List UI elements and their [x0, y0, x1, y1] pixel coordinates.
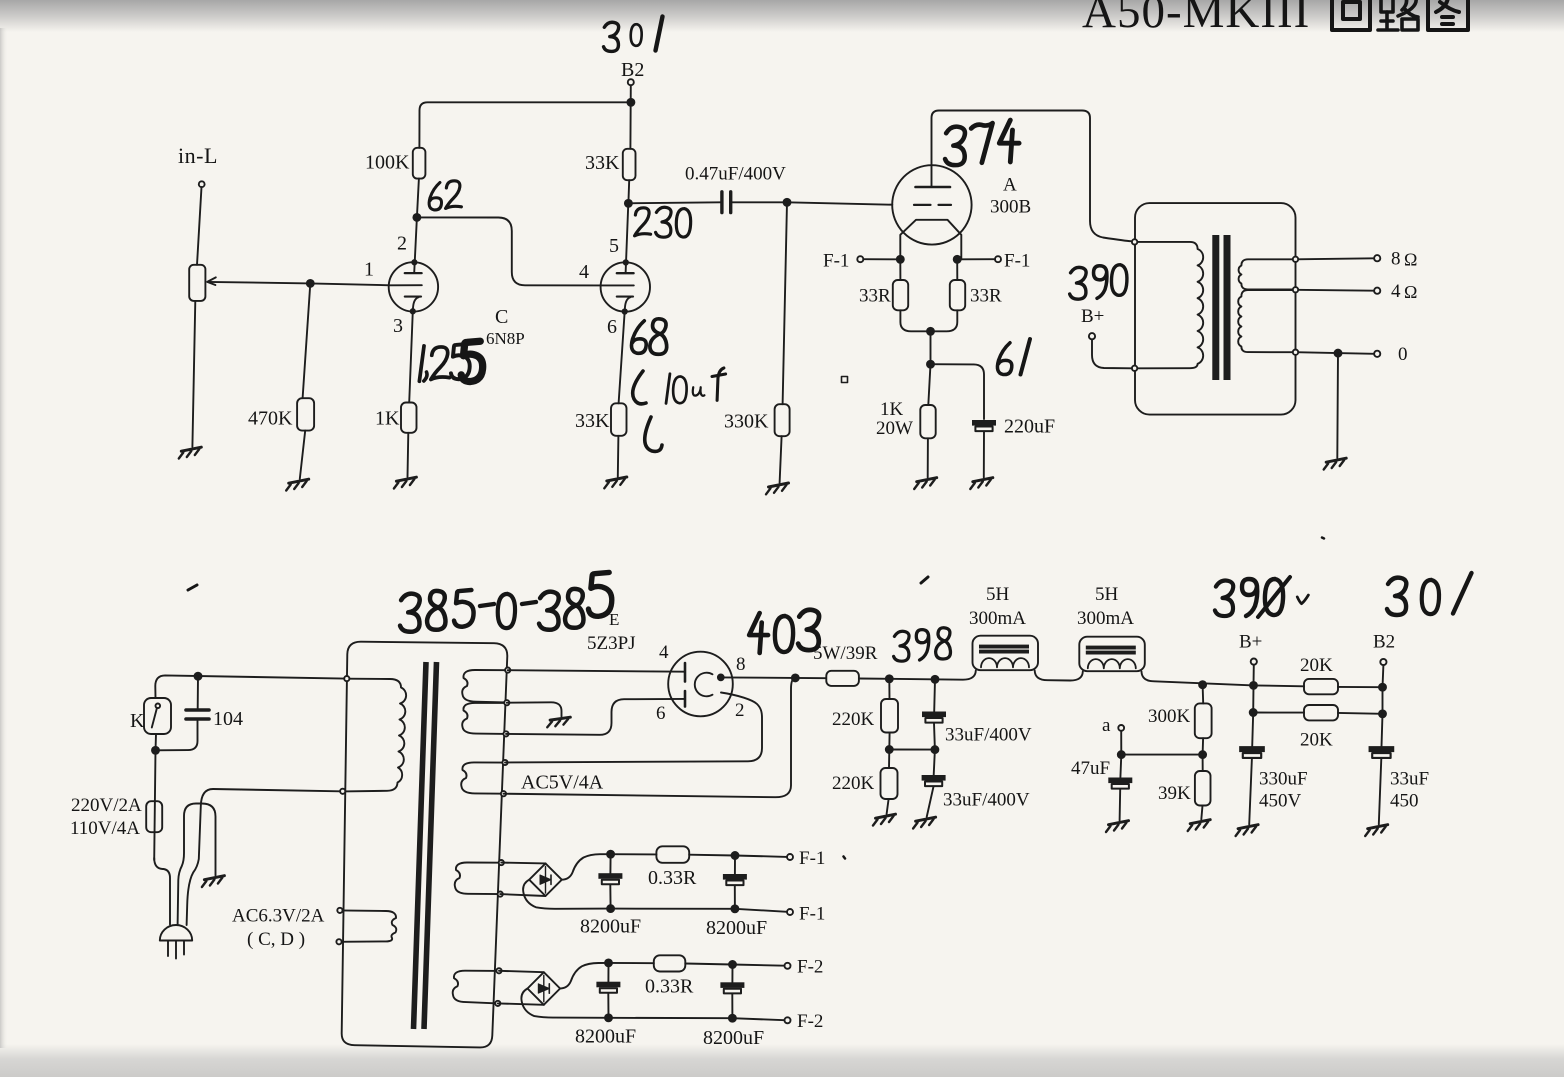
ground 220uF [970, 478, 993, 489]
svg-text:20W: 20W [876, 418, 913, 439]
PT node 6.3V bottom [336, 939, 341, 944]
junction F2 bottom cap2 [729, 1015, 736, 1022]
wire cap c leads [607, 963, 609, 1018]
terminal B2 [1380, 659, 1386, 665]
mains plug [160, 925, 192, 941]
OPT secondary loop B [1238, 290, 1295, 352]
svg-text:5Z3PJ: 5Z3PJ [587, 633, 636, 654]
node 4ohm on box [1293, 287, 1298, 292]
junction live node [152, 747, 159, 754]
wire pin8 to rail [721, 676, 826, 679]
svg-text:K: K [130, 710, 145, 732]
wire 33uF node to lower cap [934, 750, 935, 775]
resistor 33R right [950, 280, 965, 310]
wire node to a branch [1121, 754, 1202, 756]
5Z3PJ plate pin4 bar [684, 663, 687, 682]
wire pin2 to 5V top tap [505, 693, 762, 763]
ground 39K [1188, 820, 1211, 831]
wire rail to 220K upper [888, 679, 890, 699]
capacitor 8200uF d [720, 982, 744, 993]
svg-text:F-1: F-1 [799, 904, 825, 925]
handwritten 390v [1215, 577, 1309, 617]
capacitor 8200uF c [596, 982, 620, 993]
wire B+ lower to 20K lower [1253, 712, 1304, 714]
terminal F-1 minus [787, 909, 793, 915]
PT HV winding loop1 [462, 670, 508, 703]
choke L2 5H 300mA [1079, 637, 1145, 672]
svg-text:C: C [495, 306, 508, 328]
wire a node to 47uF [1119, 755, 1122, 778]
5Z3PJ filament arc [695, 673, 713, 697]
junction cathode node K [927, 328, 934, 335]
wire to F-2 minus terminal [732, 1018, 784, 1020]
PT HV winding loop2 [462, 703, 507, 734]
PT node primary bottom [340, 789, 345, 794]
wire node P1 to V2 grid [417, 217, 601, 285]
wire pot bottom to ground [192, 301, 195, 447]
wire F-1 right [961, 258, 995, 260]
PT node HV top [505, 668, 510, 673]
title CJK lu [1378, 0, 1418, 30]
svg-text:220V/2A: 220V/2A [71, 795, 142, 816]
wire B+ node to 20K upper [1254, 684, 1305, 687]
junction F1 rail cap1 [607, 851, 614, 858]
svg-text:5H: 5H [1095, 584, 1119, 605]
wire 0.33R f2 to cap2 [685, 964, 732, 965]
handwritten 403 [749, 610, 819, 653]
svg-text:104: 104 [213, 708, 243, 730]
handwritten 370 at B+ [1070, 265, 1127, 299]
PT node primary top [344, 676, 349, 681]
svg-text:E: E [609, 610, 619, 629]
junction rail 33uF [932, 676, 939, 683]
wire tap 8ohm [1296, 258, 1375, 259]
stray pen tick left [188, 585, 197, 590]
stray dot right of F-1 [844, 857, 846, 859]
junction F1 bottom cap2 [731, 905, 738, 912]
wire HV mid to ground [507, 702, 562, 716]
ground 1K [394, 477, 417, 488]
dot V2 bottom crossing [623, 309, 627, 313]
terminal a [1118, 725, 1124, 731]
svg-text:33K: 33K [585, 152, 620, 174]
terminal 8ohm [1374, 255, 1380, 261]
svg-text:3: 3 [393, 315, 403, 337]
svg-text:AC5V/4A: AC5V/4A [521, 772, 604, 794]
wire wiper to V1 grid (node G1) [208, 282, 422, 285]
ground 33uF [913, 817, 936, 828]
power transformer PT outline [342, 642, 508, 1048]
svg-text:1K: 1K [375, 408, 400, 430]
wire K to live node [155, 734, 158, 750]
PT primary 220V winding [343, 679, 406, 792]
svg-text:300B: 300B [990, 197, 1031, 218]
wire bridge1 minus to bottom rail [523, 880, 611, 909]
svg-text:8: 8 [736, 654, 746, 675]
wire F2 bottom rail [609, 1017, 733, 1019]
OPT secondary loop A [1239, 259, 1296, 289]
svg-text:110V/4A: 110V/4A [70, 818, 140, 839]
svg-text:220K: 220K [832, 709, 875, 730]
wire live node to fuse [154, 750, 155, 860]
resistor 220K lower [881, 768, 898, 799]
handwritten 398 [894, 628, 951, 661]
svg-text:in-L: in-L [178, 143, 218, 168]
ground 33uF 450 [1365, 825, 1388, 836]
capacitor 8200uF b [723, 874, 747, 885]
svg-text:B2: B2 [1373, 632, 1395, 653]
PT node HV mid [504, 700, 509, 705]
resistor 20K upper [1304, 679, 1338, 694]
terminal B2 top [628, 79, 634, 85]
svg-text:33K: 33K [575, 410, 610, 432]
svg-text:6N8P: 6N8P [486, 329, 525, 348]
wire a terminal down [1120, 731, 1122, 755]
handwritten 1.25 [419, 344, 469, 381]
svg-text:330K: 330K [724, 411, 769, 433]
svg-text:( C, D ): ( C, D ) [247, 929, 305, 950]
wire B+ node down [1252, 685, 1254, 712]
svg-text:330uF: 330uF [1259, 769, 1308, 790]
wire 5V bottom tap to rail junction [504, 678, 796, 797]
svg-text:220K: 220K [832, 773, 875, 794]
wire rail to 0.33R f1 [611, 853, 657, 855]
PT node fil2 bottom [495, 1001, 500, 1006]
junction filament right [954, 256, 961, 263]
svg-text:100K: 100K [365, 152, 410, 174]
stray speck [1322, 538, 1324, 539]
junction B2 lower [1379, 710, 1386, 717]
capacitor 330uF/450V [1239, 746, 1265, 758]
capacitor 220uF [972, 420, 996, 431]
wire node to 39K [1202, 755, 1204, 771]
PT node 6.3V top [337, 908, 342, 913]
terminal F-2 plus [785, 963, 791, 969]
resistor 0.33R f1 [656, 846, 689, 863]
resistor 0.33R f2 [654, 955, 686, 971]
ground 47uF [1106, 821, 1129, 832]
ground mains earth [202, 876, 225, 887]
svg-text:AC6.3V/2A: AC6.3V/2A [232, 906, 325, 927]
resistor 100K [413, 148, 426, 179]
title CJK hui [1332, 0, 1370, 30]
PT node 5V bottom [501, 791, 506, 796]
wire cap a leads [609, 854, 611, 908]
junction node K2 [927, 361, 934, 368]
ground 470K [286, 479, 309, 490]
wire B+ to primary bottom [1092, 339, 1132, 368]
tube 5Z3PJ envelope [668, 652, 733, 717]
terminal F-1 right [995, 256, 1001, 262]
svg-text:47uF: 47uF [1071, 758, 1110, 779]
junction filament left [897, 256, 904, 263]
junction G1 [307, 280, 314, 287]
svg-text:Ω: Ω [1404, 282, 1417, 302]
wire 330uF to ground [1249, 759, 1252, 825]
svg-text:Ω: Ω [1404, 250, 1417, 270]
wire fil1 winding to bridge ac2 [500, 894, 545, 896]
ground 220K [873, 814, 896, 825]
svg-text:1K: 1K [880, 399, 904, 420]
wire cap b leads [734, 856, 736, 909]
wire 104 top lead [197, 676, 199, 708]
wire 33uF upper to node [933, 723, 936, 750]
junction B2 rail [627, 99, 634, 106]
wire B2 terminal to node [1382, 665, 1385, 687]
ground HV center tap [547, 716, 570, 728]
tube V2 6N8P section triode envelope [601, 262, 650, 311]
terminal B+ [1251, 659, 1257, 665]
wire rail to 33uF upper [933, 679, 936, 711]
wire 220K node to lower [888, 750, 890, 769]
wire V2 cathode to 33K cathode resistor [619, 311, 625, 403]
wire rail to 0.33R f2 [609, 962, 654, 964]
svg-text:450V: 450V [1259, 791, 1302, 812]
junction B2 node [1379, 684, 1386, 691]
OPT core bars [1216, 235, 1227, 380]
wire 100K up to B2 rail [419, 102, 631, 148]
svg-text:0.33R: 0.33R [648, 867, 697, 889]
wire B2 node down [1382, 687, 1384, 714]
resistor 330K [775, 404, 790, 436]
svg-text:39K: 39K [1158, 783, 1191, 804]
svg-text:F-1: F-1 [823, 251, 849, 272]
potentiometer VR1 [189, 265, 205, 301]
svg-text:B2: B2 [621, 59, 644, 81]
ground 1K 20W [914, 478, 937, 489]
PT node fil1 bottom [498, 892, 503, 897]
wire cap d leads [731, 965, 733, 1019]
terminal 4ohm [1374, 288, 1380, 294]
junction 104 top [195, 673, 202, 680]
V2 cathode bar [617, 296, 633, 298]
artifact small square [842, 377, 848, 383]
handwritten 301 top [604, 17, 663, 52]
svg-text:F-2: F-2 [797, 957, 823, 978]
svg-text:a: a [1102, 715, 1111, 736]
svg-text:4: 4 [659, 642, 669, 663]
svg-text:4: 4 [579, 261, 589, 283]
svg-text:F-1: F-1 [1004, 251, 1030, 272]
handwritten 230 [635, 207, 691, 237]
wire to F-1 minus terminal [735, 909, 787, 912]
resistor 300K [1195, 703, 1212, 738]
title CJK tu [1428, 0, 1468, 30]
capacitor 8200uF a [598, 873, 622, 884]
svg-text:B+: B+ [1081, 306, 1104, 327]
wire tap 4ohm [1296, 289, 1375, 292]
svg-text:4: 4 [1391, 281, 1401, 302]
svg-text:470K: 470K [248, 408, 293, 430]
junction rail B+ [1250, 682, 1257, 689]
V2 cathode hook [625, 297, 631, 311]
wire link 220K node to 33uF node [889, 749, 935, 751]
wire F1 bottom rail [611, 908, 735, 910]
wire 33R legs join [900, 310, 957, 331]
svg-text:6: 6 [607, 316, 617, 338]
svg-text:20K: 20K [1300, 730, 1333, 751]
wire plug earth to ground [178, 804, 216, 926]
wire 33R left top [899, 259, 901, 280]
resistor 5W/39R [826, 671, 859, 686]
PT filament winding 1 [455, 863, 502, 895]
wire HV top to pin4 [508, 670, 685, 672]
junction F2 rail cap1 [605, 959, 612, 966]
capacitor 47uF [1108, 778, 1132, 789]
dot V1 top crossing [412, 260, 416, 264]
wire 33uF to ground [1379, 759, 1382, 825]
wire bridge2 plus to rail [560, 963, 608, 989]
terminal F-1 plus [787, 854, 793, 860]
svg-text:8: 8 [1391, 249, 1401, 270]
wire node K2 to 1K 20W [928, 364, 930, 405]
wire 1K to ground [407, 433, 410, 477]
junction 220K node [886, 746, 893, 753]
PT node fil1 top [499, 860, 504, 865]
svg-text:0.33R: 0.33R [645, 976, 694, 998]
svg-text:33R: 33R [859, 286, 891, 307]
wire fil2 winding to bridge ac1 [499, 971, 544, 972]
wire tap 0 [1296, 352, 1375, 354]
ground pot [179, 447, 202, 458]
wire 220uF to ground [983, 432, 985, 478]
handwritten 301 bottom [1387, 573, 1472, 615]
wire 104 bottom lead [156, 721, 198, 750]
resistor 33R left [893, 280, 908, 310]
resistor 1K 20W [920, 405, 935, 438]
tube 300B envelope [892, 165, 971, 244]
wire 300B plate to output transformer primary [932, 111, 1131, 242]
wire 33uF lower to ground [927, 787, 934, 818]
300B filament [900, 220, 961, 259]
wire B+ terminal to rail [1253, 665, 1255, 686]
wire choke2 to B+ node [1142, 672, 1254, 686]
svg-text:20K: 20K [1300, 655, 1333, 676]
wire coupling cap to node G3 [732, 201, 787, 203]
wire 20K lower to B2 branch [1338, 712, 1383, 715]
handwritten 385-0-385 [400, 572, 612, 631]
svg-text:1: 1 [364, 259, 374, 281]
V1 plate bar [405, 272, 422, 274]
svg-text:2: 2 [735, 700, 745, 721]
svg-text:F-2: F-2 [797, 1011, 823, 1032]
wire node K2 to 220uF [931, 364, 985, 419]
handwritten 61 [997, 339, 1030, 375]
wire choke1 to choke2 [1035, 671, 1083, 681]
wire plug neutral to PT primary bottom [187, 789, 340, 925]
PT core bars [414, 662, 437, 1029]
bridge rectifier D2 [528, 972, 561, 1005]
svg-text:2: 2 [397, 233, 407, 255]
ground 0 tap [1324, 458, 1347, 469]
bridge rectifier D1 [529, 863, 562, 896]
wire 0.33R f1 to cap2 [689, 854, 735, 857]
stray pen tick mid [921, 577, 928, 583]
svg-text:8200uF: 8200uF [580, 916, 641, 938]
wire 300K to node a [1202, 738, 1205, 754]
resistor 33K plate [623, 149, 636, 180]
wire 33R right top [956, 259, 958, 280]
wire to F-1 plus terminal [735, 856, 787, 857]
wire node K down [930, 331, 932, 364]
svg-text:300mA: 300mA [969, 608, 1026, 629]
svg-text:0: 0 [1398, 344, 1408, 365]
V2 plate bar [617, 272, 634, 274]
5Z3PJ filament dot pin8 [718, 675, 724, 681]
capacitor 104 [186, 710, 209, 719]
svg-text:A: A [1003, 175, 1017, 196]
svg-text:5H: 5H [986, 584, 1010, 605]
wire rail to 300K [1202, 685, 1205, 704]
resistor 33K cathode [611, 403, 627, 436]
junction rail 300K [1199, 681, 1206, 688]
svg-text:33uF/400V: 33uF/400V [945, 725, 1032, 746]
terminal in-L [199, 181, 205, 187]
svg-text:A50-MKIII: A50-MKIII [1082, 0, 1310, 38]
wire 220K lower to ground [887, 799, 889, 814]
resistor 470K [297, 398, 314, 430]
junction 33uF node [931, 746, 938, 753]
300B plate bar [916, 186, 951, 189]
V1 cathode hook [413, 297, 419, 311]
potentiometer wiper arrow [207, 277, 216, 285]
wire fil1 winding to bridge ac1 [501, 862, 545, 865]
wire in-L to potentiometer [197, 187, 202, 265]
wire B+ lower to 330uF [1252, 713, 1253, 747]
dot V1 bottom crossing [411, 309, 415, 313]
resistor 220K upper [881, 699, 898, 733]
V1 cathode bar [405, 296, 421, 298]
wire to F-2 plus terminal [733, 965, 785, 966]
PT node 5V top [502, 760, 507, 765]
junction 300K 39K node [1199, 751, 1206, 758]
svg-text:300mA: 300mA [1077, 608, 1134, 629]
resistor 39K [1195, 771, 1211, 806]
wire node G3 to 330K [783, 202, 787, 404]
switch K [144, 698, 171, 734]
svg-text:F-1: F-1 [799, 848, 825, 869]
junction 0 tap [1335, 350, 1342, 357]
OPT primary winding loop [1135, 242, 1203, 368]
PT 5V winding loop [461, 762, 505, 793]
wire V1 plate to node P1 [414, 217, 417, 273]
wire node P2 to coupling cap [628, 202, 720, 203]
fuse 220V/2A 110V/4A [146, 801, 162, 832]
handwritten 68 [631, 319, 666, 354]
junction P2 [625, 200, 632, 207]
wire fil2 winding to bridge ac2 [498, 1003, 544, 1004]
junction rail 220K [886, 675, 893, 682]
handwritten 62 [429, 181, 461, 210]
svg-text:8200uF: 8200uF [703, 1027, 764, 1049]
svg-text:6: 6 [656, 703, 666, 724]
svg-text:0.47uF/400V: 0.47uF/400V [685, 164, 786, 185]
ground 330uF [1236, 825, 1259, 836]
PT 6.3V winding left [339, 910, 396, 941]
resistor 20K lower [1304, 705, 1338, 720]
wire B2 terminal down to 33K [629, 85, 631, 148]
svg-text:300K: 300K [1148, 706, 1191, 727]
wire 47uF to ground [1119, 789, 1122, 821]
wire mains live top [155, 675, 344, 698]
terminal 0 [1374, 351, 1380, 357]
capacitor 33uF/400V upper [922, 712, 946, 723]
wire node G1 to 470K [303, 283, 311, 398]
svg-text:450: 450 [1390, 791, 1419, 812]
V2 grid line [601, 284, 634, 286]
svg-text:33uF: 33uF [1390, 769, 1429, 790]
node 0 on box [1293, 350, 1298, 355]
